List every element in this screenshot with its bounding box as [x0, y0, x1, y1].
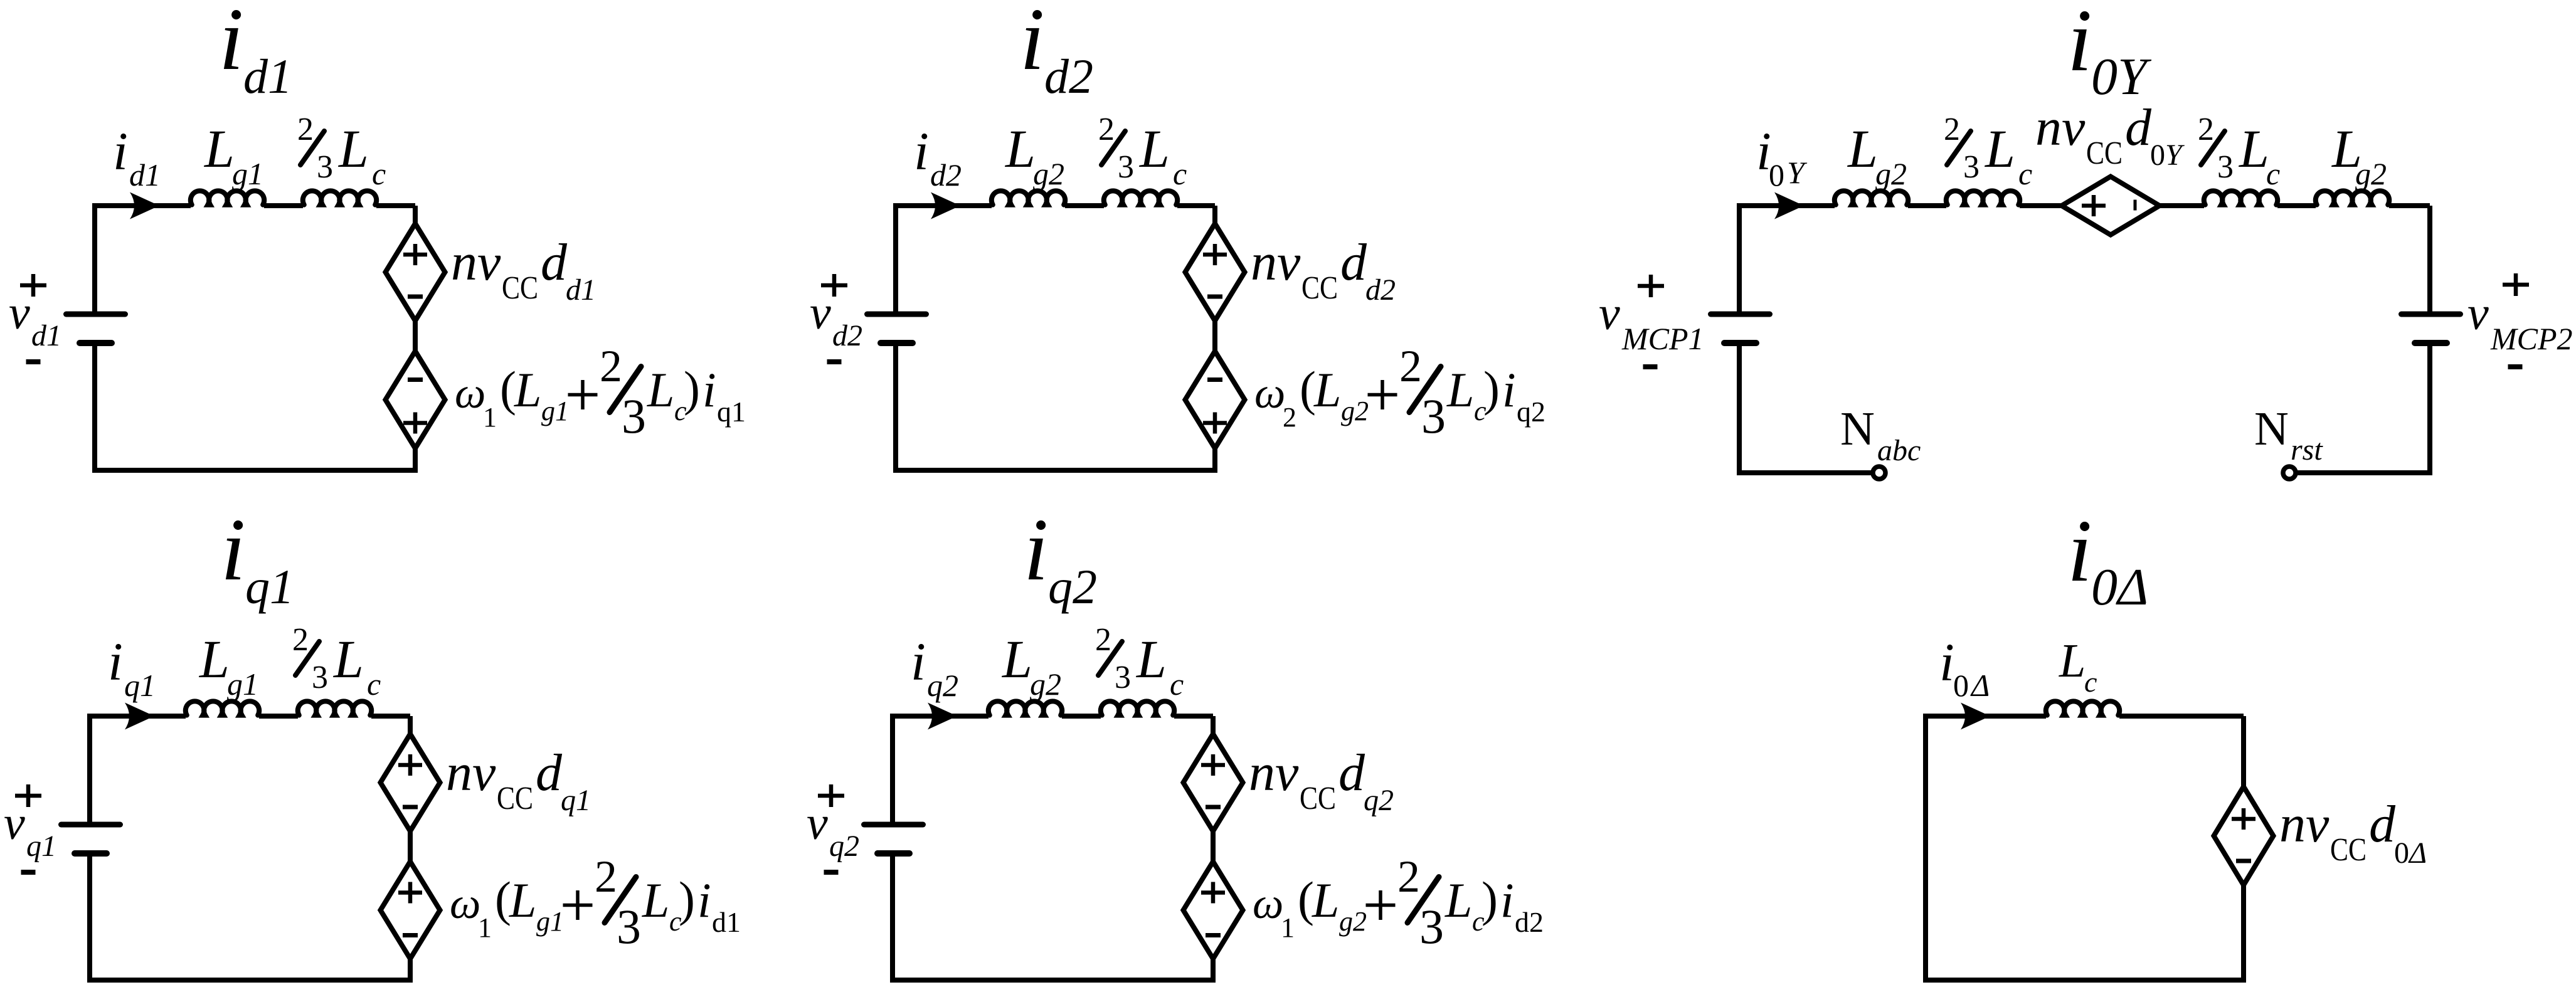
current arrow iq2: [928, 703, 957, 730]
minus sign: [2236, 859, 2251, 863]
current arrow id2: [931, 193, 960, 219]
svg-text:L: L: [1313, 362, 1341, 417]
svg-text:3: 3: [1118, 149, 1134, 185]
plus sign: [1201, 890, 1225, 895]
wire bottom: [1923, 978, 2246, 983]
battery label +vd1-: [20, 283, 46, 288]
svg-text:2: 2: [1397, 852, 1420, 902]
svg-text:1: 1: [478, 912, 492, 943]
svg-text:c: c: [1170, 667, 1184, 702]
svg-text:CC: CC: [1300, 781, 1336, 816]
svg-text:v: v: [2467, 287, 2489, 340]
svg-text:q2: q2: [1364, 784, 1394, 817]
svg-text:): ): [679, 872, 695, 926]
svg-text:L: L: [1004, 119, 1036, 179]
svg-text:d: d: [536, 744, 563, 802]
svg-text:L: L: [2238, 119, 2269, 179]
svg-text:ω: ω: [1254, 369, 1285, 418]
svg-text:3: 3: [1419, 899, 1444, 954]
svg-text:d1: d1: [31, 319, 61, 352]
node N_rst terminal: [2283, 467, 2296, 479]
wire left: [893, 203, 898, 312]
svg-text:v: v: [9, 287, 30, 339]
minus sign (rotated): [2134, 200, 2137, 211]
minus sign: [408, 295, 423, 299]
svg-text:i: i: [1500, 873, 1514, 927]
plus sign: [2232, 817, 2255, 821]
svg-text:i: i: [1020, 0, 1044, 88]
svg-text:L: L: [1984, 119, 2015, 179]
svg-text:q1: q1: [26, 830, 56, 863]
svg-text:L: L: [1138, 119, 1170, 179]
svg-text:abc: abc: [1877, 434, 1921, 467]
svg-text:0: 0: [1769, 157, 1784, 193]
dependent source nv_CC dd2: [1185, 224, 1245, 321]
wire right: [1212, 206, 1217, 470]
svg-text:q1: q1: [717, 396, 746, 428]
svg-text:L: L: [647, 362, 674, 417]
svg-text:i: i: [914, 121, 929, 181]
minus sign: [408, 377, 423, 382]
svg-text:c: c: [2266, 156, 2280, 191]
inductor Lg1: [191, 191, 264, 204]
svg-text:q1: q1: [561, 784, 591, 817]
svg-text:L: L: [1444, 873, 1472, 927]
current arrow id1: [130, 193, 159, 219]
svg-text:nv: nv: [2279, 795, 2330, 853]
wire right: [408, 716, 413, 980]
svg-text:c: c: [367, 667, 381, 702]
svg-text:q2: q2: [829, 830, 859, 863]
svg-text:d: d: [2125, 98, 2152, 157]
inductor Lc: [2046, 701, 2119, 715]
battery vd1: [66, 312, 125, 317]
svg-text:L: L: [514, 362, 541, 417]
svg-text:g1: g1: [232, 156, 263, 191]
plus sign: [1201, 763, 1225, 768]
wire top i0D: [1926, 714, 2046, 719]
inductor 2/3 Lc: [1101, 701, 1174, 715]
svg-text:2: 2: [1399, 341, 1422, 391]
svg-text:i: i: [1502, 362, 1516, 417]
minus sign: [1206, 933, 1221, 937]
battery vq2: [864, 822, 923, 828]
dependent source omega: [381, 862, 440, 959]
inductor 2/3 Lc left: [1946, 191, 2020, 204]
svg-text:g2: g2: [1033, 156, 1064, 191]
svg-text:v: v: [4, 797, 25, 850]
svg-text:2: 2: [1095, 622, 1111, 658]
svg-text:i: i: [219, 0, 243, 88]
svg-text:3: 3: [617, 899, 641, 954]
svg-text:i: i: [911, 631, 926, 692]
inductor Lg2 left: [1835, 191, 1908, 204]
svg-text:i: i: [2067, 0, 2092, 90]
battery v_MCP1: [1711, 312, 1770, 317]
plus sign: [398, 890, 422, 895]
svg-text:d: d: [2369, 795, 2396, 853]
battery label +vq2-: [818, 794, 844, 798]
svg-text:g2: g2: [1875, 156, 1907, 191]
label +v_MCP2-: [2503, 283, 2529, 287]
svg-text:2: 2: [292, 622, 309, 658]
svg-text:d1: d1: [129, 157, 161, 193]
dependent source nv_CC d0Y: [2062, 177, 2160, 235]
inductor Lg2: [989, 701, 1062, 715]
svg-text:L: L: [337, 119, 369, 179]
svg-text:d1: d1: [712, 906, 741, 938]
minus sign: [1206, 805, 1221, 810]
svg-text:3: 3: [317, 149, 333, 185]
svg-text:nv: nv: [1249, 744, 1299, 802]
svg-text:Δ: Δ: [1970, 668, 1990, 703]
svg-text:i: i: [702, 362, 716, 417]
current arrow i0D: [1961, 703, 1990, 730]
svg-text:2: 2: [600, 341, 622, 391]
svg-text:MCP1: MCP1: [1621, 321, 1704, 356]
inductor Lg1: [186, 701, 259, 715]
svg-text:v: v: [1599, 287, 1620, 340]
wire left: [92, 203, 97, 312]
svg-text:2: 2: [2198, 112, 2214, 147]
svg-text:d1: d1: [566, 273, 596, 307]
svg-text:g2: g2: [2355, 156, 2387, 191]
svg-text:g2: g2: [1339, 906, 1367, 937]
wire bottom: [893, 468, 1217, 473]
battery v_MCP2: [2402, 312, 2461, 317]
current arrow iq1: [125, 703, 154, 730]
wire right: [1211, 716, 1216, 980]
svg-text:d2: d2: [1365, 273, 1396, 307]
svg-text:rst: rst: [2291, 433, 2323, 467]
svg-text:1: 1: [483, 402, 497, 433]
svg-text:nv: nv: [451, 233, 501, 292]
inductor Lg2: [992, 191, 1065, 204]
svg-text:d: d: [541, 233, 568, 292]
current arrow i0Y: [1774, 193, 1804, 219]
svg-text:c: c: [372, 156, 386, 191]
wire bottom: [890, 978, 1216, 983]
svg-text:nv: nv: [446, 744, 496, 802]
svg-text:d: d: [1340, 233, 1367, 292]
wire top: [95, 203, 191, 208]
svg-text:L: L: [1446, 362, 1474, 417]
svg-text:0: 0: [1953, 668, 1969, 703]
plus sign: [1203, 253, 1227, 257]
svg-text:3: 3: [622, 389, 646, 443]
svg-text:3: 3: [312, 660, 328, 695]
svg-text:ω: ω: [450, 880, 480, 928]
svg-text:2: 2: [1098, 112, 1115, 147]
wire right: [2241, 716, 2246, 980]
svg-text:3: 3: [1421, 389, 1446, 443]
svg-text:c: c: [2084, 666, 2097, 698]
dependent source nv_CC dq2: [1184, 734, 1243, 831]
battery vq1: [61, 822, 120, 828]
wire bottom right from N_rst: [2296, 470, 2432, 475]
wire left: [890, 714, 895, 822]
wire right: [413, 206, 418, 470]
svg-text:MCP2: MCP2: [2490, 321, 2573, 356]
wire left: [1737, 203, 1742, 312]
svg-text:g2: g2: [1341, 396, 1369, 426]
label +v_MCP1-: [1638, 284, 1664, 288]
svg-text:g2: g2: [1030, 667, 1061, 702]
svg-text:L: L: [198, 629, 230, 689]
minus sign: [403, 933, 418, 937]
svg-text:Y: Y: [1787, 155, 1808, 190]
svg-text:N: N: [1840, 403, 1875, 455]
svg-text:nv: nv: [2035, 98, 2086, 157]
plus sign: [2082, 204, 2106, 208]
svg-text:1: 1: [1281, 912, 1295, 943]
svg-text:i: i: [108, 631, 123, 692]
minus sign: [1207, 295, 1222, 299]
svg-text:CC: CC: [2086, 135, 2123, 171]
svg-text:N: N: [2254, 403, 2289, 455]
svg-text:v: v: [810, 287, 831, 339]
wire left: [1923, 714, 1928, 980]
wire top: [893, 714, 989, 719]
svg-text:i: i: [697, 873, 711, 927]
inductor 2/3 Lc: [1104, 191, 1177, 204]
svg-text:v: v: [807, 797, 828, 850]
svg-text:2: 2: [297, 112, 314, 147]
svg-text:L: L: [642, 873, 669, 927]
svg-text:i: i: [2067, 501, 2092, 600]
dependent source omega: [386, 351, 445, 448]
dependent source omega: [1185, 351, 1245, 448]
svg-text:L: L: [1847, 119, 1878, 179]
svg-text:3: 3: [1963, 149, 1980, 185]
inductor Lg2 right: [2316, 191, 2389, 204]
svg-text:c: c: [2018, 156, 2032, 191]
inductor 2/3 Lc right: [2204, 191, 2277, 204]
svg-text:d: d: [1338, 744, 1365, 802]
svg-text:d2: d2: [1044, 49, 1093, 103]
battery label +vd2-: [821, 283, 847, 288]
plus sign: [403, 253, 427, 257]
node N_abc terminal: [1873, 467, 1885, 479]
svg-text:i: i: [221, 500, 245, 599]
svg-text:Δ: Δ: [2408, 836, 2427, 870]
svg-text:L: L: [509, 873, 536, 927]
svg-text:i: i: [113, 121, 128, 181]
wire top i0Y: [1739, 203, 1835, 208]
svg-text:0Δ: 0Δ: [2091, 558, 2148, 616]
svg-text:ω: ω: [1253, 880, 1283, 928]
wire left: [87, 714, 92, 822]
svg-text:2: 2: [595, 852, 617, 902]
wire bottom: [87, 978, 413, 983]
svg-text:L: L: [1135, 629, 1167, 689]
svg-text:L: L: [1001, 629, 1032, 689]
svg-text:ω: ω: [455, 369, 485, 418]
svg-text:CC: CC: [2330, 832, 2367, 868]
wire bottom: [92, 468, 418, 473]
svg-text:0Y: 0Y: [2091, 48, 2152, 106]
svg-text:d2: d2: [832, 319, 862, 352]
wire top: [896, 203, 992, 208]
svg-text:2: 2: [1283, 402, 1296, 433]
svg-text:i: i: [1939, 632, 1954, 692]
svg-text:g1: g1: [536, 906, 564, 937]
svg-text:0: 0: [2150, 139, 2165, 172]
svg-text:g1: g1: [541, 396, 569, 426]
svg-text:q2: q2: [1048, 559, 1097, 614]
minus sign: [403, 805, 418, 810]
svg-text:g1: g1: [227, 667, 258, 702]
svg-text:CC: CC: [497, 781, 533, 816]
svg-text:d2: d2: [1515, 906, 1544, 938]
inductor 2/3 Lc: [303, 191, 376, 204]
battery label +vq1-: [15, 794, 41, 798]
svg-text:CC: CC: [1301, 270, 1338, 306]
wire right: [2427, 206, 2432, 312]
svg-text:d1: d1: [243, 49, 292, 103]
plus sign: [403, 421, 427, 425]
wire top: [90, 714, 186, 719]
battery vd2: [867, 312, 926, 317]
svg-text:Y: Y: [2165, 139, 2185, 172]
svg-text:3: 3: [1115, 660, 1131, 695]
svg-text:q2: q2: [1517, 396, 1545, 428]
dependent source omega: [1184, 862, 1243, 959]
svg-text:d2: d2: [930, 157, 962, 193]
svg-text:3: 3: [2217, 149, 2234, 185]
svg-text:c: c: [1173, 156, 1187, 191]
dependent source nv_CC d0D: [2214, 787, 2274, 885]
plus sign: [1203, 421, 1227, 425]
wire bottom left to N_abc: [1737, 470, 1872, 475]
svg-text:L: L: [2059, 635, 2086, 687]
dependent source nv_CC dq1: [381, 734, 440, 831]
dependent source nv_CC dd1: [386, 224, 445, 321]
svg-text:): ): [1483, 361, 1500, 416]
svg-text:L: L: [203, 119, 235, 179]
minus sign: [1207, 377, 1222, 382]
svg-text:): ): [1481, 872, 1498, 926]
plus sign: [398, 763, 422, 768]
svg-text:0: 0: [2394, 836, 2409, 870]
svg-text:q1: q1: [124, 668, 156, 703]
svg-text:q1: q1: [245, 559, 294, 614]
svg-text:L: L: [332, 629, 364, 689]
svg-text:CC: CC: [502, 270, 538, 306]
svg-text:): ): [684, 361, 700, 416]
inductor 2/3 Lc: [298, 701, 371, 715]
svg-text:L: L: [1312, 873, 1339, 927]
svg-text:nv: nv: [1251, 233, 1301, 292]
svg-text:2: 2: [1944, 112, 1960, 147]
svg-text:q2: q2: [927, 668, 958, 703]
svg-text:i: i: [1024, 500, 1048, 599]
